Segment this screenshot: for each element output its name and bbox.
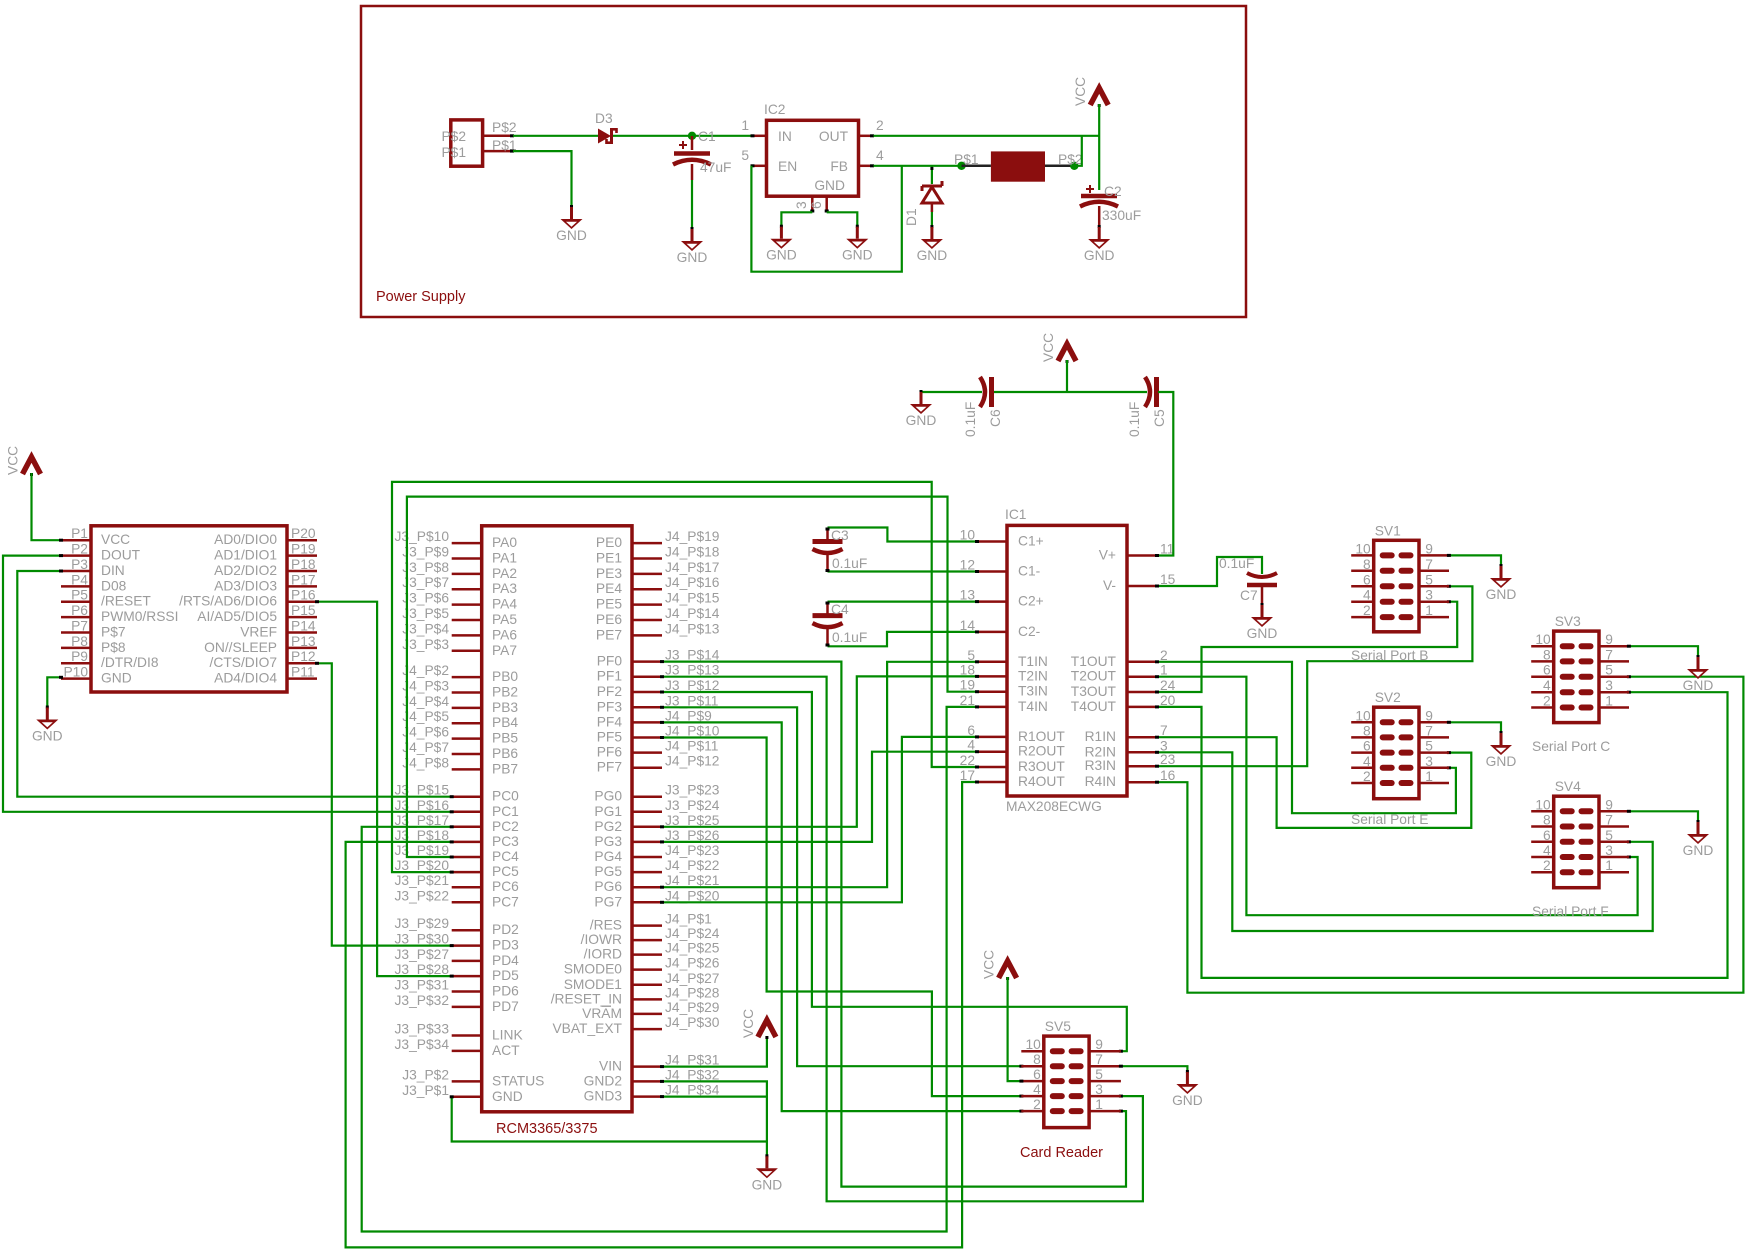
svg-text:PB4: PB4 [492, 715, 518, 730]
svg-text:5: 5 [1425, 572, 1433, 587]
svg-text:P17: P17 [291, 572, 316, 587]
capacitor C3 [813, 528, 843, 572]
svg-text:J4_P$13: J4_P$13 [665, 621, 720, 636]
svg-text:4: 4 [876, 148, 884, 163]
svg-text:P$2: P$2 [441, 129, 466, 144]
svg-text:PB5: PB5 [492, 731, 518, 746]
svg-text:10: 10 [1355, 541, 1371, 556]
svg-text:IC2: IC2 [764, 102, 785, 117]
pin numbers SV2 [1355, 708, 1433, 784]
diode D1 zener [922, 166, 942, 227]
svg-text:6: 6 [1033, 1067, 1041, 1082]
svg-text:7: 7 [1605, 647, 1613, 662]
svg-text:3: 3 [1095, 1082, 1103, 1097]
svg-text:PG7: PG7 [594, 894, 622, 909]
svg-text:PB3: PB3 [492, 700, 518, 715]
svg-text:/RTS/AD6/DIO6: /RTS/AD6/DIO6 [179, 594, 277, 609]
svg-text:J4_P$20: J4_P$20 [665, 888, 720, 903]
frame Power Supply [361, 6, 1246, 317]
wire R4IN to SV3 pin5 [1157, 677, 1743, 993]
svg-text:D3: D3 [595, 111, 613, 126]
svg-text:J4_P$16: J4_P$16 [665, 575, 720, 590]
svg-text:17: 17 [960, 768, 975, 783]
svg-text:2: 2 [1363, 769, 1371, 784]
wire IC2 GND pin3 to ground [781, 212, 812, 226]
svg-text:P$8: P$8 [101, 640, 126, 655]
svg-text:PG5: PG5 [594, 864, 622, 879]
svg-text:P1: P1 [71, 526, 88, 541]
svg-text:J3_P$18: J3_P$18 [395, 828, 450, 843]
ground left of C6 [906, 390, 937, 428]
svg-text:PG1: PG1 [594, 804, 622, 819]
svg-text:P15: P15 [291, 603, 316, 618]
wire IC2 FB to inductor [874, 165, 962, 167]
svg-text:GND: GND [101, 671, 132, 686]
IC RCM3365 module [482, 526, 632, 1112]
ground under IC2 pin6 [842, 225, 873, 263]
svg-text:J3_P$20: J3_P$20 [395, 858, 450, 873]
svg-text:T3IN: T3IN [1018, 684, 1048, 699]
svg-text:PE5: PE5 [596, 597, 622, 612]
svg-text:J3_P$13: J3_P$13 [665, 663, 720, 678]
svg-text:6: 6 [1363, 572, 1371, 587]
capacitor C7 [1247, 573, 1277, 605]
svg-text:D1: D1 [904, 208, 919, 226]
svg-text:J3_P$7: J3_P$7 [402, 575, 449, 590]
svg-text:J4_P$3: J4_P$3 [402, 678, 449, 693]
svg-text:C2+: C2+ [1018, 594, 1044, 609]
svg-text:J4_P$27: J4_P$27 [665, 971, 719, 986]
svg-text:2: 2 [1033, 1097, 1041, 1112]
svg-text:7: 7 [1605, 813, 1613, 828]
svg-text:J3_P$16: J3_P$16 [395, 798, 450, 813]
svg-text:PG0: PG0 [594, 789, 622, 804]
svg-text:J4_P$24: J4_P$24 [665, 926, 720, 941]
capacitor C1 [673, 136, 711, 180]
svg-text:J4_P$19: J4_P$19 [665, 529, 720, 544]
svg-text:T1IN: T1IN [1018, 654, 1048, 669]
svg-text:16: 16 [1160, 768, 1176, 783]
svg-text:0.1uF: 0.1uF [832, 630, 867, 645]
svg-text:GND: GND [1486, 754, 1517, 769]
svg-text:6: 6 [1543, 828, 1551, 843]
svg-text:R3IN: R3IN [1085, 758, 1116, 773]
svg-text:0.1uF: 0.1uF [832, 556, 867, 571]
svg-text:FB: FB [830, 159, 848, 174]
ground at SV2 [1486, 731, 1517, 769]
svg-text:VCC: VCC [101, 532, 130, 547]
svg-text:GND: GND [1683, 678, 1714, 693]
svg-text:PE7: PE7 [596, 627, 622, 642]
svg-text:C7: C7 [1240, 588, 1258, 603]
ground at SV3 [1683, 655, 1714, 693]
svg-text:PD5: PD5 [492, 968, 519, 983]
svg-text:P20: P20 [291, 526, 316, 541]
svg-text:9: 9 [1095, 1037, 1103, 1052]
pin labels RCM left [395, 529, 450, 1098]
svg-text:PF2: PF2 [597, 684, 622, 699]
wire PC4 to T3IN [407, 497, 977, 857]
svg-text:J3_P$8: J3_P$8 [402, 560, 449, 575]
wire SV1 pin9 to ground [1449, 555, 1501, 566]
svg-text:GND: GND [1683, 843, 1714, 858]
svg-text:3: 3 [1160, 738, 1168, 753]
pin numbers IC1 [960, 528, 1176, 784]
pins RCM left PC [452, 797, 482, 903]
wire PF0 to SV5 pin1 [662, 662, 1126, 1187]
pin numbers SV3 [1535, 632, 1613, 708]
svg-text:PC7: PC7 [492, 894, 519, 909]
svg-text:Serial Port C: Serial Port C [1532, 739, 1610, 754]
wire PC2 to T4IN [362, 707, 977, 1232]
svg-text:PC2: PC2 [492, 819, 519, 834]
svg-text:PB7: PB7 [492, 761, 518, 776]
wire P$2 to D3 [513, 135, 598, 137]
ground under RCM [752, 1154, 783, 1192]
svg-text:3: 3 [1605, 678, 1613, 693]
svg-text:SV3: SV3 [1555, 614, 1581, 629]
wire IC2 OUT to VCC node [874, 135, 1100, 137]
ground under C2 [1084, 225, 1115, 263]
svg-text:J4_P$4: J4_P$4 [402, 694, 449, 709]
wire PG2 to T2IN [662, 676, 977, 826]
pins IC1 right [1127, 556, 1157, 783]
VCC supply top [1073, 77, 1108, 107]
wire SV3 pin9 to ground [1629, 646, 1698, 657]
wire IC2 GND pin6 to ground [827, 212, 858, 226]
svg-text:T2IN: T2IN [1018, 668, 1048, 683]
svg-text:R4OUT: R4OUT [1018, 774, 1065, 789]
svg-text:D08: D08 [101, 578, 127, 593]
svg-text:PA6: PA6 [492, 627, 517, 642]
svg-text:PE3: PE3 [596, 566, 622, 581]
svg-text:J4_P$14: J4_P$14 [665, 606, 720, 621]
svg-text:24: 24 [1160, 678, 1176, 693]
svg-text:PD7: PD7 [492, 999, 519, 1014]
svg-text:5: 5 [1425, 739, 1433, 754]
svg-text:9: 9 [1605, 797, 1613, 812]
svg-text:J3_P$28: J3_P$28 [395, 962, 450, 977]
svg-text:47uF: 47uF [700, 160, 731, 175]
svg-text:T1OUT: T1OUT [1071, 654, 1117, 669]
svg-text:C3: C3 [831, 528, 849, 543]
svg-text:Serial Port E: Serial Port E [1351, 812, 1428, 827]
svg-text:J4_P$8: J4_P$8 [402, 755, 449, 770]
svg-text:J4_P$30: J4_P$30 [665, 1015, 720, 1030]
svg-text:10: 10 [1025, 1037, 1041, 1052]
svg-text:J4_P$9: J4_P$9 [665, 708, 712, 723]
wire P10 to ground [47, 677, 61, 707]
svg-text:PF1: PF1 [597, 669, 622, 684]
svg-text:J4_P$34: J4_P$34 [665, 1083, 720, 1098]
svg-text:P18: P18 [291, 557, 316, 572]
svg-text:15: 15 [1160, 572, 1176, 587]
junction at C1 [688, 132, 696, 140]
wire T4OUT to SV3 pin3 [1157, 692, 1728, 978]
pins RCM right PF [632, 662, 662, 768]
wire R2IN to SV4 pin5 [1157, 752, 1653, 931]
svg-text:P8: P8 [71, 634, 88, 649]
svg-text:J4_P$18: J4_P$18 [665, 544, 720, 559]
svg-text:EN: EN [778, 159, 797, 174]
svg-text:11: 11 [1160, 542, 1174, 557]
svg-text:5: 5 [1095, 1067, 1103, 1082]
svg-text:VREF: VREF [240, 624, 277, 639]
svg-text:P$7: P$7 [101, 624, 126, 639]
pin numbers SV5 [1025, 1037, 1103, 1112]
wire VCC rail [994, 391, 1147, 393]
svg-text:J3_P$12: J3_P$12 [665, 678, 719, 693]
svg-text:PA2: PA2 [492, 566, 517, 581]
wire P2 DOUT to PC1 [3, 556, 452, 812]
svg-text:AD0/DIO0: AD0/DIO0 [214, 532, 277, 547]
svg-text:0.1uF: 0.1uF [963, 402, 978, 437]
svg-text:2: 2 [876, 118, 884, 133]
svg-text:P2: P2 [71, 542, 88, 557]
svg-text:22: 22 [960, 753, 975, 768]
svg-text:J4_P$15: J4_P$15 [665, 591, 720, 606]
svg-text:R3OUT: R3OUT [1018, 759, 1065, 774]
svg-text:20: 20 [1160, 693, 1176, 708]
svg-text:GND: GND [752, 1177, 783, 1192]
pins IC1 left [977, 542, 1007, 783]
pins RCM left PD [452, 930, 482, 1007]
wire PG3 to R2OUT [662, 752, 977, 842]
svg-text:PE6: PE6 [596, 612, 622, 627]
overline VRAM [602, 1005, 612, 1007]
wire T2OUT to SV4 pin3 [1157, 677, 1638, 916]
node P$1 of L1 [957, 162, 965, 170]
svg-text:VBAT_EXT: VBAT_EXT [552, 1021, 622, 1036]
svg-text:3: 3 [1425, 588, 1433, 603]
svg-text:VCC: VCC [982, 950, 997, 979]
svg-text:/RESET: /RESET [101, 594, 151, 609]
svg-text:3: 3 [794, 201, 809, 209]
svg-text:R2IN: R2IN [1085, 744, 1116, 759]
svg-text:J4_P$1: J4_P$1 [665, 912, 712, 927]
svg-text:J3_P$15: J3_P$15 [395, 783, 450, 798]
svg-text:C5: C5 [1152, 409, 1167, 427]
svg-text:330uF: 330uF [1102, 208, 1141, 223]
svg-text:PF6: PF6 [597, 745, 623, 760]
wire D3 to IC2 IN [613, 135, 751, 137]
svg-text:R1OUT: R1OUT [1018, 729, 1065, 744]
wire P$1 to ground [513, 151, 572, 207]
svg-text:SMODE0: SMODE0 [564, 962, 623, 977]
svg-text:SMODE1: SMODE1 [564, 977, 622, 992]
svg-text:LINK: LINK [492, 1028, 523, 1043]
wire P1 to VCC [32, 473, 62, 540]
svg-text:J3_P$25: J3_P$25 [665, 813, 720, 828]
svg-text:C2-: C2- [1018, 624, 1040, 639]
svg-text:R2OUT: R2OUT [1018, 744, 1065, 759]
svg-text:P5: P5 [71, 588, 88, 603]
svg-text:GND: GND [917, 248, 948, 263]
wire SV4 pin9 to ground [1629, 811, 1698, 822]
svg-text:J3_P$26: J3_P$26 [665, 828, 720, 843]
svg-text:J3_P$5: J3_P$5 [402, 606, 449, 621]
svg-text:J3_P$2: J3_P$2 [402, 1067, 449, 1082]
svg-text:J3_P$3: J3_P$3 [402, 637, 449, 652]
svg-text:AD4/DIO4: AD4/DIO4 [214, 671, 277, 686]
svg-text:Serial Port B: Serial Port B [1351, 648, 1428, 663]
svg-text:VCC: VCC [6, 446, 21, 475]
svg-text:J3_P$33: J3_P$33 [395, 1022, 450, 1037]
svg-text:RCM3365/3375: RCM3365/3375 [496, 1121, 598, 1137]
svg-text:13: 13 [960, 588, 976, 603]
pins RCM right power [632, 1067, 662, 1097]
svg-text:PA1: PA1 [492, 550, 517, 565]
svg-text:PD4: PD4 [492, 953, 519, 968]
svg-text:J4_P$7: J4_P$7 [402, 740, 449, 755]
wire VIN to VCC [662, 1036, 767, 1067]
pin labels XBee right [291, 526, 316, 679]
svg-text:P12: P12 [291, 649, 316, 664]
svg-text:12: 12 [960, 558, 975, 573]
svg-text:PB2: PB2 [492, 684, 518, 699]
svg-text:3: 3 [1425, 754, 1433, 769]
connector X1 [451, 120, 483, 166]
svg-text:PWM0/RSSI: PWM0/RSSI [101, 609, 178, 624]
ground under connector [556, 205, 587, 243]
svg-text:AD3/DIO3: AD3/DIO3 [214, 578, 277, 593]
svg-text:7: 7 [1425, 723, 1433, 738]
svg-text:SV1: SV1 [1375, 523, 1401, 538]
svg-text:J3_P$27: J3_P$27 [395, 947, 449, 962]
svg-text:P3: P3 [71, 557, 88, 572]
pins RCM left LINK ACT [452, 1036, 482, 1051]
svg-text:J3_P$11: J3_P$11 [665, 693, 718, 708]
capacitor C5 [1145, 377, 1157, 407]
svg-text:J4_P$12: J4_P$12 [665, 754, 719, 769]
svg-text:STATUS: STATUS [492, 1073, 544, 1088]
svg-text:1: 1 [1425, 769, 1433, 784]
svg-text:4: 4 [1363, 754, 1371, 769]
wire R3IN to SV1 pin5 [1157, 586, 1472, 766]
svg-text:GND3: GND3 [584, 1089, 623, 1104]
svg-text:PF7: PF7 [597, 760, 622, 775]
svg-text:P$1: P$1 [441, 145, 466, 160]
svg-text:J4_P$22: J4_P$22 [665, 858, 719, 873]
svg-text:PA4: PA4 [492, 597, 517, 612]
svg-text:Power Supply: Power Supply [376, 289, 466, 305]
svg-text:T4OUT: T4OUT [1071, 699, 1117, 714]
connector SV2 [1351, 707, 1449, 799]
svg-text:5: 5 [741, 148, 749, 163]
svg-text:GND: GND [814, 178, 845, 193]
svg-text:5: 5 [1605, 828, 1613, 843]
wire PF2 to SV5 pin9 [662, 692, 1127, 1051]
connector SV1 [1351, 540, 1449, 632]
svg-text:P19: P19 [291, 542, 316, 557]
svg-text:PE1: PE1 [596, 550, 622, 565]
wire P12 CTS to PD3 [317, 663, 452, 945]
svg-text:6: 6 [809, 201, 824, 209]
svg-text:1: 1 [1095, 1097, 1103, 1112]
svg-text:1: 1 [1605, 694, 1613, 709]
svg-text:4: 4 [1543, 678, 1551, 693]
svg-text:J3_P$23: J3_P$23 [665, 783, 720, 798]
ground at SV5 [1172, 1070, 1203, 1108]
svg-text:PF0: PF0 [597, 654, 623, 669]
svg-text:SV5: SV5 [1045, 1019, 1071, 1034]
svg-text:C1-: C1- [1018, 564, 1040, 579]
svg-text:14: 14 [960, 618, 976, 633]
svg-text:1: 1 [1425, 603, 1433, 618]
svg-text:J3_P$32: J3_P$32 [395, 993, 449, 1008]
svg-text:PE0: PE0 [596, 535, 622, 550]
wire PG6 to T1IN [662, 662, 977, 887]
ground under IC2 pin3 [766, 225, 797, 263]
svg-text:VRAM: VRAM [582, 1006, 622, 1021]
svg-text:GND: GND [677, 250, 708, 265]
svg-text:/DTR/DI8: /DTR/DI8 [101, 655, 159, 670]
wire L1 P$2 up to VCC net [1074, 136, 1082, 166]
svg-text:J3_P$6: J3_P$6 [402, 591, 449, 606]
svg-text:PF3: PF3 [597, 699, 623, 714]
pin numbers SV1 [1355, 541, 1433, 618]
svg-text:GND: GND [1084, 248, 1115, 263]
svg-text:9: 9 [1425, 708, 1433, 723]
wire PC3 to R4OUT [346, 782, 977, 1247]
svg-text:P14: P14 [291, 618, 316, 633]
svg-text:J3_P$19: J3_P$19 [395, 843, 450, 858]
svg-text:GND: GND [1172, 1093, 1203, 1108]
svg-text:2: 2 [1543, 858, 1551, 873]
svg-text:J3_P$21: J3_P$21 [395, 873, 449, 888]
pins RCM left STATUS GND [452, 1081, 482, 1096]
wire R1IN to SV2 pin5 [1157, 737, 1471, 828]
wire SV2 pin9 to ground [1449, 722, 1501, 733]
svg-text:PF5: PF5 [597, 730, 623, 745]
pins RCM right bus [632, 926, 662, 1030]
svg-text:1: 1 [1160, 663, 1168, 678]
svg-text:J3_P$17: J3_P$17 [395, 813, 449, 828]
svg-text:J4_P$21: J4_P$21 [665, 873, 719, 888]
svg-text:P4: P4 [71, 572, 88, 587]
wire C4 bottom to pin14 [828, 632, 978, 646]
ground under D1 [917, 225, 948, 263]
svg-text:P9: P9 [71, 649, 88, 664]
svg-text:Serial Port F: Serial Port F [1532, 904, 1609, 919]
capacitor C4 [813, 602, 843, 647]
wire P3 DIN to PC0 [17, 571, 451, 797]
svg-text:4: 4 [967, 738, 975, 753]
VCC supply at XBee [6, 446, 41, 476]
svg-text:19: 19 [960, 678, 976, 693]
svg-text:J4_P$5: J4_P$5 [402, 709, 449, 724]
svg-text:GND2: GND2 [584, 1073, 622, 1088]
svg-text:J3_P$4: J3_P$4 [402, 621, 449, 636]
svg-text:21: 21 [960, 693, 975, 708]
pin numbers SV4 [1535, 797, 1613, 873]
capacitor C6 [980, 377, 992, 407]
svg-text:VIN: VIN [599, 1059, 622, 1074]
wire T3OUT to SV1 pin3 [1157, 602, 1457, 692]
svg-text:VCC: VCC [741, 1009, 756, 1038]
svg-text:/CTS/DIO7: /CTS/DIO7 [210, 655, 277, 670]
svg-text:9: 9 [1605, 632, 1613, 647]
svg-text:C1+: C1+ [1018, 534, 1044, 549]
svg-text:10: 10 [1535, 797, 1551, 812]
svg-text:7: 7 [1095, 1052, 1103, 1067]
svg-text:IC1: IC1 [1005, 507, 1026, 522]
svg-text:PB0: PB0 [492, 669, 518, 684]
node P$2 of L1 [1070, 162, 1078, 170]
svg-text:J3_P$34: J3_P$34 [395, 1037, 450, 1052]
svg-text:J3_P$9: J3_P$9 [402, 544, 449, 559]
connector SV4 [1531, 796, 1629, 888]
